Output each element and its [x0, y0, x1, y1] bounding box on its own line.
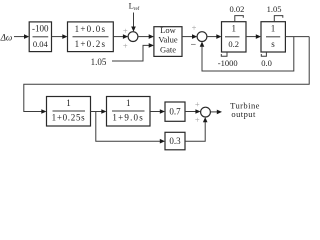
svg-text:1: 1	[271, 23, 276, 33]
block gain 0.3	[165, 132, 185, 150]
svg-text:-1000: -1000	[218, 58, 238, 68]
wire S1 to low value gate	[138, 36, 150, 38]
svg-text:1.05: 1.05	[91, 57, 107, 67]
svg-text:0.04: 0.04	[33, 39, 49, 49]
svg-text:0.02: 0.02	[229, 4, 244, 14]
svg-text:0.2: 0.2	[228, 39, 239, 49]
svg-text:+: +	[192, 22, 197, 32]
svg-text:1: 1	[126, 98, 131, 108]
svg-text:Low: Low	[160, 25, 176, 35]
wire low value gate to summer S2	[182, 36, 193, 38]
svg-text:1.05: 1.05	[267, 4, 282, 14]
svg-text:+: +	[123, 26, 128, 36]
svg-text:0.0: 0.0	[261, 58, 272, 68]
wire S2 to gain block	[207, 36, 217, 38]
wire Lref down into S1	[133, 13, 135, 28]
svg-text:-100: -100	[32, 24, 49, 34]
svg-text:1: 1	[66, 98, 71, 108]
svg-text:output: output	[231, 109, 256, 119]
block gain 1/0.2	[222, 22, 247, 52]
wire lead-lag to summer S1	[113, 36, 123, 38]
wire 1.05 into low value gate	[112, 45, 150, 61]
svg-text:0.7: 0.7	[169, 107, 181, 117]
svg-text:Δω: Δω	[0, 32, 12, 42]
svg-text:−: −	[190, 40, 196, 51]
block lead-lag (1+0.0s)/(1+0.2s)	[68, 22, 114, 52]
wire fuel system to turbine lag	[91, 111, 103, 113]
svg-text:0.3: 0.3	[169, 136, 181, 146]
limiter lower mark on integrator	[261, 52, 266, 56]
block droop gain -100/0.04	[29, 22, 51, 52]
wire branch to gain 0.3	[96, 112, 161, 142]
svg-text:1+9.0s: 1+9.0s	[112, 113, 144, 123]
svg-text:Gate: Gate	[160, 44, 176, 54]
limiter lower mark on gain block	[221, 52, 227, 56]
block gain 0.7	[165, 102, 185, 121]
summer S2	[197, 32, 207, 42]
wire input to droop block	[14, 36, 25, 38]
limiter upper mark on integrator	[274, 16, 283, 22]
svg-text:Lref: Lref	[129, 1, 140, 12]
block turbine lag 1/(1+9.0s)	[107, 97, 151, 127]
limiter upper mark on gain block	[235, 16, 244, 22]
svg-text:Value: Value	[158, 35, 178, 45]
svg-text:s: s	[271, 39, 275, 49]
wire S3 to turbine output	[210, 111, 217, 113]
wire gain 0.3 to summer S3	[185, 121, 205, 141]
block fuel system 1/(1+0.25s)	[47, 97, 91, 127]
svg-text:1+0.0s: 1+0.0s	[75, 24, 107, 34]
svg-text:+: +	[195, 115, 200, 125]
wire feedback to turbine path	[24, 37, 309, 112]
wire gain 0.7 to summer S3	[185, 111, 196, 113]
summer S1	[128, 32, 138, 42]
wire turbine lag to gain 0.7	[150, 111, 161, 113]
block integrator 1/s	[261, 22, 285, 52]
wire droop to lead-lag	[52, 36, 64, 38]
summer S3	[201, 107, 211, 117]
wire integrator output	[285, 36, 309, 38]
svg-text:+: +	[123, 41, 128, 51]
svg-text:1: 1	[231, 23, 236, 33]
svg-text:+: +	[195, 99, 200, 109]
wire gain block to integrator	[246, 36, 257, 38]
svg-text:1+0.25s: 1+0.25s	[52, 113, 86, 123]
wire feedback to S2	[202, 37, 294, 71]
block low value gate	[154, 27, 182, 57]
svg-text:1+0.2s: 1+0.2s	[75, 39, 107, 49]
